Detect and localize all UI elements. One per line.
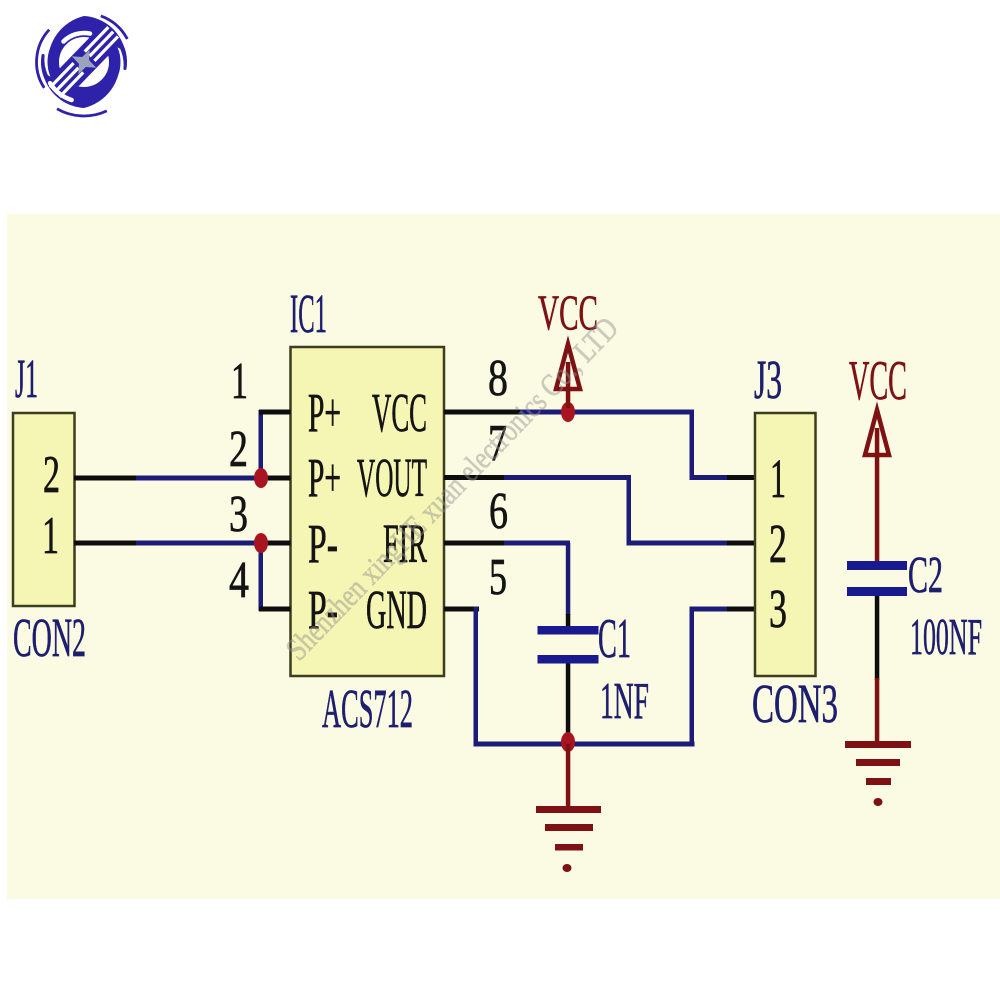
IC1 pin 3 stub [263,541,291,546]
svg-text:J3: J3 [754,349,782,410]
IC1 pin 4 stub [259,607,291,612]
capacitor C1 [538,614,599,744]
connector J3 body [755,413,816,676]
svg-text:C2: C2 [908,547,943,604]
svg-text:5: 5 [489,549,507,606]
watermark [278,310,625,667]
svg-text:C1: C1 [598,608,631,670]
node A junction dot [254,468,268,488]
IC1 body [291,347,445,676]
IC1 pin 2 stub [263,476,291,481]
ground bus junction dot [561,732,575,752]
svg-text:CON2: CON2 [13,607,86,668]
VCC junction dot on pin8 wire [561,402,575,422]
connector J1 body [13,413,75,606]
svg-text:1: 1 [42,507,59,565]
wire J1 pin1 to node B [74,541,261,546]
svg-text:VCC: VCC [372,382,427,443]
svg-text:1NF: 1NF [600,673,649,730]
svg-text:100NF: 100NF [910,609,982,666]
svg-text:2: 2 [769,513,787,574]
svg-text:IC1: IC1 [290,283,327,344]
svg-text:3: 3 [229,486,248,543]
node B junction dot [254,533,268,553]
svg-text:P+: P+ [308,382,341,443]
power symbol VCC (right) [865,410,889,561]
svg-text:VCC: VCC [849,350,907,412]
wire IC1 pin7 VOUT to J3 pin2 [444,475,755,546]
company logo [37,16,128,116]
svg-text:2: 2 [43,446,60,504]
wire J1 pin2 to node A [74,476,261,481]
svg-text:J1: J1 [15,348,38,409]
svg-text:ACS712: ACS712 [322,678,413,739]
wire IC1 pin6 FIR to C1 [444,541,570,616]
svg-text:6: 6 [489,483,508,540]
wire vertical jumper pins 1-2 [259,410,264,478]
schematic sheet background [7,214,1000,899]
svg-text:4: 4 [229,552,249,609]
wire IC1 pin8 to J3 pin1 [444,410,755,481]
ground symbol (right) [845,678,911,806]
svg-text:1: 1 [231,353,248,410]
svg-text:CON3: CON3 [752,673,838,734]
svg-text:8: 8 [488,350,508,407]
wire vertical jumper pins 3-4 [259,543,264,611]
svg-text:1: 1 [770,448,786,509]
svg-text:3: 3 [769,578,787,639]
power symbol VCC (left) [556,344,580,408]
wire IC1 pin5 GND to ground bus [444,607,755,747]
ground symbol (center) [536,744,601,872]
svg-text:P+: P+ [308,447,341,508]
IC1 pin 1 stub [259,410,291,415]
capacitor C2 [847,561,907,680]
svg-text:2: 2 [229,421,248,478]
svg-text:P-: P- [308,513,338,574]
